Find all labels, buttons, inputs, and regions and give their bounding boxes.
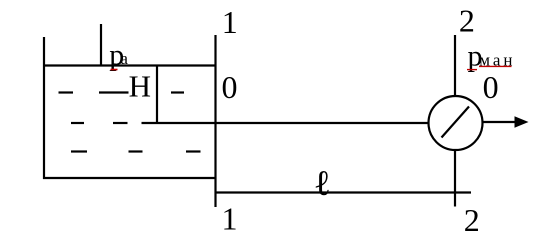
liquid dash row3 a — [71, 150, 87, 152]
length dimension line — [215, 191, 472, 193]
svg-text:ℓ: ℓ — [314, 163, 331, 203]
svg-text:2: 2 — [464, 202, 480, 238]
svg-text:0: 0 — [222, 69, 238, 105]
flow arrowhead — [515, 116, 529, 127]
liquid dash row1 b — [99, 91, 129, 93]
outlet line — [483, 121, 515, 123]
svg-text:1: 1 — [222, 4, 238, 40]
liquid dash row3 b — [129, 150, 143, 152]
pipe axis 0-0 — [142, 122, 429, 124]
svg-text:2: 2 — [459, 2, 475, 38]
red spellcheck underline under p of pman — [467, 69, 477, 71]
vent tube — [100, 24, 102, 66]
liquid dash row3 c — [186, 150, 201, 152]
tank left wall — [43, 37, 45, 179]
section line 2-2 lower — [454, 150, 456, 207]
liquid dash row1 c — [171, 91, 184, 93]
svg-text:1: 1 — [222, 200, 238, 236]
water surface line — [43, 64, 217, 66]
liquid dash row2 a — [71, 122, 84, 124]
svg-text:H: H — [129, 68, 151, 103]
liquid dash row2 b — [113, 122, 128, 124]
liquid dash row1 a — [59, 91, 74, 93]
section line 1-1 — [214, 35, 216, 207]
svg-text:0: 0 — [483, 69, 499, 105]
red spellcheck underline under man subscript — [479, 65, 512, 67]
tank bottom — [43, 177, 217, 179]
section line 2-2 upper — [454, 35, 456, 96]
svg-text:а: а — [120, 49, 128, 68]
red spellcheck mark under pa — [111, 69, 118, 71]
pressure gauge body — [429, 96, 483, 150]
H dimension line — [156, 66, 158, 125]
gauge needle diagonal — [442, 107, 470, 138]
